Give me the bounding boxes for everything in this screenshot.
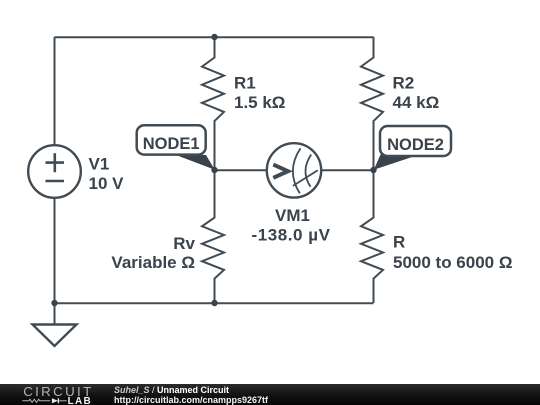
- node NODE2 flag: [374, 126, 451, 170]
- svg-text:44 kΩ: 44 kΩ: [393, 93, 440, 112]
- svg-text:R2: R2: [393, 74, 415, 93]
- footer bar: [0, 384, 540, 405]
- svg-text:VM1: VM1: [275, 206, 310, 225]
- svg-text:NODE2: NODE2: [387, 136, 444, 154]
- svg-text:-138.0 µV: -138.0 µV: [251, 225, 330, 244]
- svg-text:Variable Ω: Variable Ω: [111, 253, 195, 272]
- svg-text:R1: R1: [234, 74, 256, 93]
- CircuitLab logo: [0, 384, 110, 405]
- footer title text: [114, 386, 268, 405]
- svg-text:V1: V1: [89, 155, 110, 174]
- wire V1 bottom lead: [54, 198, 56, 303]
- node NODE1 flag: [137, 125, 215, 170]
- junction dot R1 top: [211, 34, 217, 40]
- wire mid left (NODE1 to voltmeter): [215, 169, 267, 171]
- svg-text:10 V: 10 V: [89, 174, 125, 193]
- svg-text:1.5 kΩ: 1.5 kΩ: [234, 93, 285, 112]
- junction dot Rv bottom: [211, 300, 217, 306]
- svg-text:NODE1: NODE1: [143, 135, 200, 153]
- junction dot ground: [51, 300, 57, 306]
- wire top rail: [55, 36, 374, 38]
- svg-text:R: R: [393, 232, 405, 251]
- wire bottom rail: [55, 302, 374, 304]
- resistor R: [361, 170, 383, 303]
- svg-text:Rv: Rv: [173, 234, 195, 253]
- voltage source V1: [28, 145, 81, 198]
- resistor R2: [361, 37, 383, 170]
- junction dot NODE1: [211, 167, 217, 173]
- svg-text:LAB: LAB: [68, 396, 92, 405]
- svg-text:5000 to 6000 Ω: 5000 to 6000 Ω: [393, 253, 512, 272]
- wire left branch top (V1 top lead): [54, 37, 56, 145]
- wire mid right (voltmeter to NODE2): [321, 169, 373, 171]
- voltmeter VM1: [267, 143, 321, 197]
- resistor Rv: [202, 170, 224, 303]
- resistor R1: [202, 37, 224, 170]
- ground: [33, 303, 77, 346]
- junction dot NODE2: [370, 167, 376, 173]
